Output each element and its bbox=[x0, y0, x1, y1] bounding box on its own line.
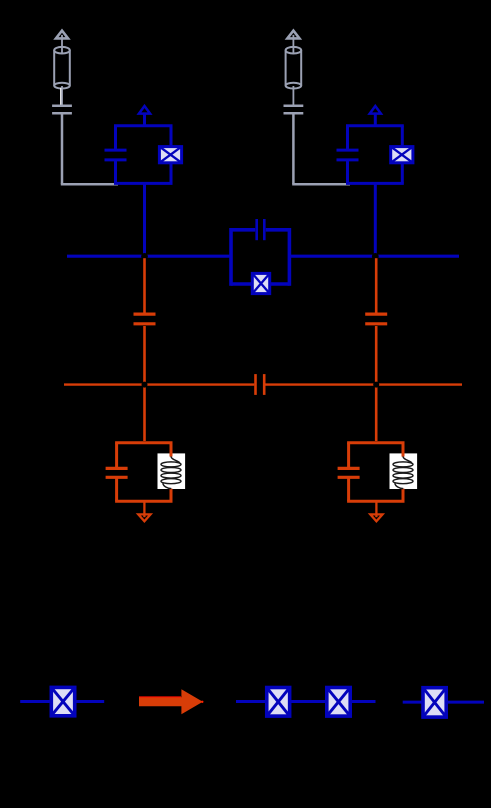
red feedline left segment bbox=[64, 383, 254, 385]
legend junction JJ single bbox=[51, 687, 75, 716]
wire C1 readout vertical bbox=[143, 258, 146, 441]
legend wire single-JJ right bbox=[76, 700, 104, 703]
legend junction JJ last bbox=[423, 688, 447, 718]
bus wire right segment bbox=[289, 255, 459, 258]
ground R2 bbox=[370, 501, 382, 521]
qubit Q2 flux arrow bbox=[370, 106, 381, 126]
capacitor C2 readout bbox=[365, 314, 387, 324]
legend wire single-JJ left bbox=[20, 700, 50, 703]
capacitor center feedline bbox=[256, 374, 265, 395]
inductor R2 background bbox=[390, 453, 418, 489]
red feedline right segment bbox=[265, 383, 462, 385]
port P2 feed wire upper bbox=[292, 35, 294, 105]
port P2 drive arrow bbox=[287, 31, 299, 39]
legend wire last right bbox=[448, 701, 485, 704]
qubit Q1 flux arrow bbox=[139, 106, 150, 126]
wire port P2 to qubit Q2 bbox=[292, 114, 350, 184]
junction JJ qubit Q1 bbox=[159, 146, 182, 163]
resonator R2 loop bbox=[347, 443, 404, 501]
port P1 feed wire upper bbox=[61, 35, 63, 105]
capacitor C1 readout bbox=[134, 314, 156, 324]
wire qubit Q2 to bus bbox=[374, 183, 377, 256]
legend wire array mid bbox=[290, 700, 326, 703]
coupler loop bbox=[231, 228, 289, 286]
inductor R1 background bbox=[158, 453, 186, 489]
port P1 coupling capacitor bbox=[52, 106, 72, 113]
coupler junction JJ bbox=[252, 273, 270, 294]
inductor R2 coil bbox=[393, 456, 413, 488]
capacitor resonator R1 bbox=[106, 468, 128, 477]
port P2 coupling capacitor bbox=[284, 106, 304, 113]
resonator R1 loop bbox=[115, 443, 172, 501]
legend wire last left bbox=[403, 701, 422, 704]
legend wire array left bbox=[236, 700, 266, 703]
port P1 center pin highlight bbox=[60, 88, 62, 105]
capacitor qubit Q2 bbox=[337, 150, 359, 160]
wire qubit Q1 to bus bbox=[143, 183, 146, 256]
qubit Q2 loop bbox=[346, 126, 404, 184]
node dot bus-Q1 bbox=[141, 253, 148, 260]
port P1 drive arrow bbox=[56, 31, 68, 39]
ground R1 bbox=[138, 501, 150, 521]
capacitor resonator R2 bbox=[338, 468, 360, 477]
inductor R1 coil bbox=[161, 456, 181, 488]
junction JJ qubit Q2 bbox=[391, 146, 414, 163]
legend junction JJ array-2 bbox=[327, 687, 351, 716]
node dot feed-R1 bbox=[142, 382, 148, 388]
legend arrow bbox=[139, 689, 204, 714]
node dot feed-R2 bbox=[373, 382, 379, 388]
wire port P1 to qubit Q1 bbox=[61, 114, 118, 184]
qubit Q1 loop bbox=[114, 126, 173, 184]
wire C2 readout vertical bbox=[375, 258, 378, 441]
capacitor qubit Q1 bbox=[105, 150, 127, 160]
port P1 coax cylinder bbox=[54, 47, 70, 89]
port P2 coax cylinder bbox=[286, 47, 302, 89]
legend junction JJ array-1 bbox=[267, 687, 290, 716]
coupler capacitor bbox=[257, 219, 265, 240]
node dot bus-Q2 bbox=[372, 253, 379, 260]
bus wire left segment bbox=[67, 255, 231, 258]
legend wire array right bbox=[351, 700, 376, 703]
